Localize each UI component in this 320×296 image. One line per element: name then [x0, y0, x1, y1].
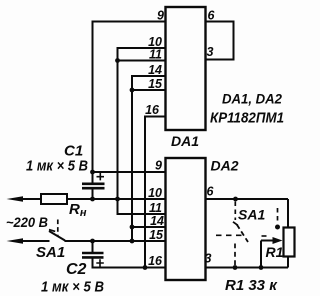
wire R1 wiper: [261, 240, 274, 242]
switch SA1 (right) contact tick: [233, 222, 238, 226]
svg-text:15: 15: [149, 228, 164, 242]
wire DA2 pin14 row: [132, 226, 166, 228]
svg-text:~220 В: ~220 В: [6, 214, 48, 230]
capacitor C2 leads: [92, 241, 94, 252]
wire Rn row to DA2 pin10: [23, 198, 166, 200]
wire DA1 pin15 stub: [132, 89, 166, 91]
node pin11/pin10 junction: [115, 58, 120, 63]
switch SA1 (right) blade dashed: [237, 225, 248, 243]
node pin3 row / wiper: [259, 265, 264, 270]
svg-text:DA1, DA2: DA1, DA2: [222, 91, 282, 107]
resistor R1 body: [284, 228, 295, 257]
capacitor C1 leads: [92, 172, 94, 183]
svg-text:SA1: SA1: [238, 207, 265, 223]
capacitor C1 plates: [82, 184, 105, 188]
wire DA1 pin6-pin3 loop: [206, 22, 234, 60]
node pin6 row / switch: [233, 197, 238, 202]
linkage dashed horizontal: [216, 234, 245, 236]
node Rn row / pins10-11 vertical: [115, 197, 120, 202]
wire DA2 pin6 row right: [206, 198, 289, 200]
linkage dash near wiper: [262, 235, 267, 237]
capacitor C1 plus: [97, 173, 105, 180]
svg-text:9: 9: [157, 9, 164, 23]
switch SA1 (right, dashed) vertical upper: [234, 202, 236, 221]
switch SA1 linkage dashes (left): [57, 220, 59, 236]
svg-text:3: 3: [207, 45, 214, 59]
svg-text:14: 14: [150, 214, 164, 228]
svg-text:16: 16: [148, 254, 163, 268]
svg-text:15: 15: [148, 77, 163, 91]
linkage dashed to R1: [277, 208, 279, 223]
capacitor C2 plus: [96, 259, 104, 266]
node pin15/pin14 junction: [130, 88, 135, 93]
wire DA1 pin10 down to DA2 pin11 jog: [118, 48, 166, 214]
node SA1 row / C2 top: [90, 239, 95, 244]
svg-text:R1 33 к: R1 33 к: [225, 277, 278, 294]
wire DA1 pin16 down vertical: [145, 117, 166, 268]
node DA2 pin14 branch: [130, 225, 135, 230]
wire DA2 pin3 row right: [206, 267, 289, 269]
wire DA2 pin9 row: [93, 171, 166, 173]
switch SA1 contact tick (left): [49, 230, 55, 232]
node linkage / R1: [275, 225, 280, 230]
svg-text:11: 11: [149, 48, 162, 62]
op-amp U1 / IC DA1 box: [166, 7, 206, 130]
wire SA1 row to DA2 pin15: [65, 240, 166, 242]
svg-text:SA1: SA1: [36, 244, 65, 261]
switch SA1 blade (left): [49, 231, 65, 241]
svg-text:14: 14: [148, 63, 162, 77]
wire DA1 pin11 stub: [118, 60, 166, 62]
arrow to mains (top): [7, 196, 24, 202]
svg-text:3: 3: [205, 252, 212, 266]
svg-text:6: 6: [208, 9, 216, 23]
svg-text:9: 9: [155, 159, 162, 173]
wire SA1 row left: [23, 240, 50, 242]
svg-text:1 мк × 5 В: 1 мк × 5 В: [26, 158, 88, 175]
svg-text:10: 10: [148, 186, 162, 200]
wire DA1 pin9 to left vertical: [93, 22, 166, 173]
wire DA1 pin14 down vertical: [132, 76, 166, 241]
arrow to mains (bottom): [7, 238, 24, 244]
svg-text:DA2: DA2: [211, 158, 239, 174]
resistor Rn body: [41, 194, 67, 204]
svg-text:16: 16: [145, 103, 160, 117]
svg-text:11: 11: [149, 201, 162, 215]
capacitor C2 plates: [82, 253, 104, 257]
svg-text:КР1182ПМ1: КР1182ПМ1: [210, 110, 284, 127]
op-amp U2 / IC DA2 box: [166, 158, 206, 280]
node C1 top / DA2 pin9: [90, 170, 95, 175]
node SA1 row / pins14-15 vertical: [130, 239, 135, 244]
svg-text:DA1: DA1: [171, 133, 199, 149]
svg-text:C2: C2: [66, 261, 87, 278]
node pin3 row / switch: [233, 265, 238, 270]
R1 wiper arrowhead: [273, 237, 283, 244]
wire right loop vertical to R1: [287, 199, 289, 228]
svg-text:6: 6: [207, 185, 215, 199]
node pin16 row junction: [143, 265, 148, 270]
switch SA1 (right, dashed) vertical lower: [234, 244, 236, 267]
svg-text:R1: R1: [266, 244, 284, 260]
node C1 bottom / Rn row: [90, 197, 95, 202]
svg-text:1 мк × 5 В: 1 мк × 5 В: [41, 279, 104, 296]
